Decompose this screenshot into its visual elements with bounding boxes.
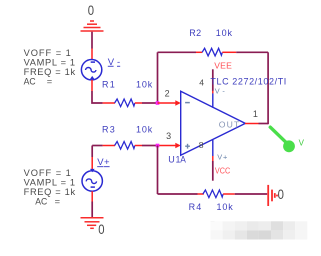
V2 properties text <box>24 168 76 207</box>
op-amp V+ pin-name text <box>217 152 227 161</box>
svg-text:10k: 10k <box>217 202 234 212</box>
svg-text:V+: V+ <box>97 157 110 168</box>
svg-text:=: = <box>55 197 60 207</box>
svg-text:V: V <box>299 139 305 148</box>
svg-text:4: 4 <box>199 78 204 88</box>
net alias V+ (underlined, at V2) <box>97 157 110 168</box>
op-amp pin 4 lead (V-) <box>212 91 214 108</box>
svg-text:AC: AC <box>35 197 47 207</box>
node 0 label (bottom ground) <box>98 221 104 237</box>
svg-text:4: 4 <box>196 202 201 212</box>
watermark mosaic <box>211 221 308 240</box>
svg-text:TLC 2272/102/TI: TLC 2272/102/TI <box>210 76 286 86</box>
voltage source V1 (VSIN) <box>81 59 101 79</box>
V1 pin + (top lead, red) <box>91 49 93 60</box>
svg-text:10k: 10k <box>136 79 153 89</box>
pin 8 number <box>199 140 204 150</box>
ground 0 (bottom, earth symbol, red) <box>81 218 104 229</box>
svg-text:OUT: OUT <box>219 119 240 129</box>
wire R3 to node IN+ <box>142 145 158 147</box>
ground 0 (right, earth symbol rotated 90, red) <box>268 185 277 206</box>
svg-text:FREQ = 1k: FREQ = 1k <box>24 67 76 77</box>
ground 0 (top, earth symbol rotated, red) <box>81 21 104 31</box>
op-amp part number TLC 2272/102/TI <box>210 76 286 86</box>
pin 2 number <box>165 89 170 99</box>
net alias V- (underlined, at V1) <box>108 57 120 68</box>
svg-text:2: 2 <box>196 28 201 38</box>
wire R2 left segment <box>158 51 197 53</box>
R4 value label 10k <box>217 202 234 212</box>
op-amp U1A pin 3 (non-inverting input, red arrow) <box>158 143 181 148</box>
svg-text:1: 1 <box>253 109 258 119</box>
pin 1 number <box>253 109 258 119</box>
V1 bottom terminal arrow <box>90 76 95 80</box>
svg-text:AC: AC <box>24 77 36 87</box>
op-amp refdes U 1A <box>168 154 186 164</box>
V2 pin - (bottom lead, red) <box>91 191 93 201</box>
svg-text:3: 3 <box>166 131 171 141</box>
wire R4 to right ground <box>235 193 268 195</box>
resistor R2 <box>196 48 236 56</box>
voltage probe (green marker V) <box>270 127 295 152</box>
svg-text:0: 0 <box>88 2 94 18</box>
op-amp U1A pin 2 (inverting input, red arrow) <box>158 100 181 105</box>
wire feedback left vertical (R2 left to IN- node) <box>157 52 159 103</box>
wire R1 to node IN- <box>142 102 158 104</box>
op-amp V- pin-name text <box>215 87 226 96</box>
svg-text:V+: V+ <box>217 152 227 161</box>
probe V label <box>299 139 305 148</box>
junction at IN- node <box>156 101 160 105</box>
V1 pin - (bottom lead, red) <box>91 80 93 91</box>
op-amp pin 1 output lead <box>245 123 259 125</box>
VCC power symbol stem <box>212 161 214 181</box>
VCC net label <box>215 165 230 175</box>
R1 refdes label <box>102 79 115 89</box>
wire R4 row left segment <box>158 193 198 195</box>
R4 refdes label <box>189 202 202 212</box>
op-amp plus marker <box>185 144 190 149</box>
VEE net label <box>214 60 232 70</box>
svg-text:3: 3 <box>110 124 115 134</box>
svg-text:0: 0 <box>98 221 104 237</box>
svg-text:VOFF = 1: VOFF = 1 <box>24 168 71 178</box>
V2 top terminal arrow <box>90 169 95 172</box>
junction at IN+ node <box>156 144 160 148</box>
wire feedback right vertical <box>267 52 269 124</box>
svg-text:2: 2 <box>165 89 170 99</box>
svg-text:VAMPL = 1: VAMPL = 1 <box>24 57 76 67</box>
wire R2 right segment <box>236 51 268 53</box>
op-amp minus marker <box>185 102 190 104</box>
pin 4 number <box>199 78 204 88</box>
svg-text:VCC: VCC <box>215 165 230 175</box>
resistor R3 <box>103 142 142 150</box>
svg-text:R: R <box>102 124 109 134</box>
R2 value label 10k <box>216 28 233 38</box>
svg-text:R: R <box>189 202 196 212</box>
VEE power symbol stem <box>212 69 214 91</box>
wire V1 to R1 (corner) <box>92 91 103 103</box>
R3 refdes label <box>102 124 115 134</box>
pin 3 number <box>166 131 171 141</box>
R2 refdes label <box>189 28 201 38</box>
svg-text:=: = <box>47 77 52 87</box>
node 0 label (top ground) <box>88 2 94 18</box>
svg-text:FREQ = 1k: FREQ = 1k <box>24 187 76 197</box>
svg-text:1: 1 <box>110 79 115 89</box>
svg-text:VEE: VEE <box>214 60 232 70</box>
svg-text:10k: 10k <box>136 124 153 134</box>
svg-text:1A: 1A <box>176 154 186 164</box>
svg-text:0: 0 <box>278 186 284 202</box>
R3 value label 10k <box>136 124 153 134</box>
svg-text:8: 8 <box>199 140 204 150</box>
wire output to feedback corner <box>259 123 269 125</box>
wire ground0 to V1 top <box>91 32 93 49</box>
wire IN+ node down to R4 row <box>157 146 159 195</box>
wire R3 row from V2 corner <box>92 145 102 147</box>
wire V2 top corner <box>91 146 93 158</box>
svg-text:U: U <box>168 154 175 164</box>
svg-text:VAMPL = 1: VAMPL = 1 <box>24 178 76 188</box>
svg-text:10k: 10k <box>216 28 233 38</box>
resistor R4 <box>198 190 235 198</box>
V2 pin + (top lead, red) <box>91 157 93 171</box>
resistor R1 <box>103 99 142 107</box>
node 0 label (right ground) <box>278 186 284 202</box>
svg-text:R: R <box>102 79 109 89</box>
R1 value label 10k <box>136 79 153 89</box>
op-amp U1 triangle body <box>181 91 246 155</box>
V1 properties text <box>24 48 76 87</box>
svg-text:VOFF = 1: VOFF = 1 <box>24 48 71 58</box>
op-amp pin 8 lead (V+) <box>212 140 214 161</box>
voltage source V2 (VSIN) <box>82 171 102 191</box>
op-amp OUT pin-name text <box>219 119 240 129</box>
wire V2 to ground 0 (bottom) <box>91 202 93 218</box>
